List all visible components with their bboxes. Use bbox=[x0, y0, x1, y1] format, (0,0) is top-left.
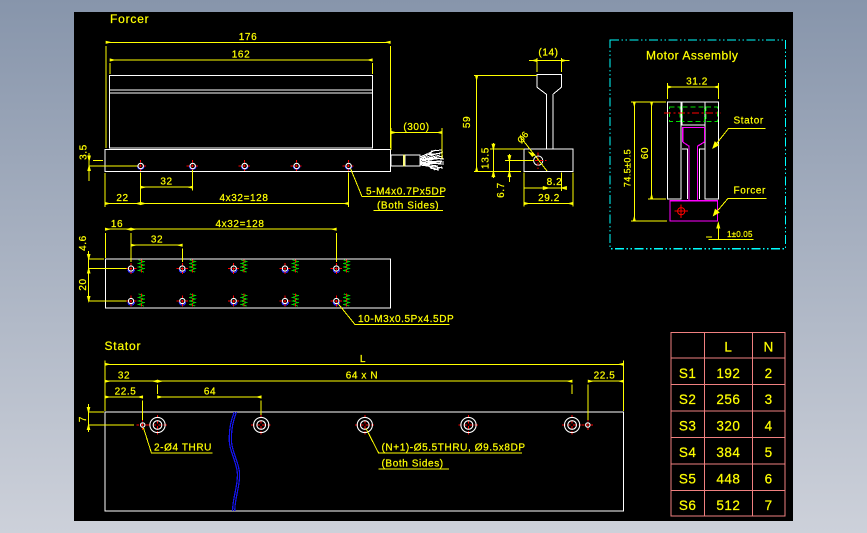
dimension 8.2 bbox=[524, 173, 566, 192]
svg-text:Forcer: Forcer bbox=[110, 12, 149, 26]
label 5-M4x0.7Px5DP leader bbox=[351, 169, 445, 211]
label Forcer leader bbox=[714, 198, 767, 215]
dimension 13.5 bbox=[490, 143, 524, 178]
centerline (red dash-dot) bbox=[664, 112, 721, 114]
stator plate bbox=[105, 412, 624, 511]
forcer T profile (side view) bbox=[524, 74, 573, 171]
svg-text:32: 32 bbox=[118, 371, 130, 382]
dimension 176 bbox=[106, 42, 390, 148]
dimension 22.5 (right) bbox=[588, 381, 623, 420]
svg-text:(Both Sides): (Both Sides) bbox=[382, 458, 444, 469]
dimension 4x32=128 (bottom view) bbox=[131, 229, 336, 262]
svg-text:5: 5 bbox=[765, 445, 773, 460]
dimension 32 (bottom view) bbox=[131, 245, 182, 262]
label Stator leader bbox=[713, 129, 765, 149]
forcer mount holes (front view) bbox=[135, 160, 355, 172]
dimension 29.2 bbox=[524, 173, 573, 207]
svg-text:176: 176 bbox=[239, 32, 258, 43]
svg-text:Stator: Stator bbox=[105, 339, 142, 353]
svg-text:N: N bbox=[763, 340, 773, 355]
svg-text:Forcer: Forcer bbox=[734, 186, 767, 197]
dimension 20 (bottom view) bbox=[88, 273, 127, 301]
dimension 31.2 bbox=[668, 83, 719, 99]
svg-text:162: 162 bbox=[232, 50, 251, 61]
svg-text:S5: S5 bbox=[679, 472, 697, 487]
svg-text:5-M4x0.7Px5DP: 5-M4x0.7Px5DP bbox=[366, 186, 447, 197]
dimension 60 bbox=[648, 102, 666, 199]
svg-text:20: 20 bbox=[78, 278, 89, 290]
side view base block bbox=[524, 149, 573, 171]
dimension 6.7 bbox=[505, 154, 534, 182]
stator inner wall left bbox=[682, 149, 687, 199]
svg-text:7: 7 bbox=[765, 498, 773, 513]
svg-text:29.2: 29.2 bbox=[538, 193, 560, 204]
forcer body (front view) bbox=[110, 76, 373, 149]
svg-text:256: 256 bbox=[716, 392, 740, 407]
svg-text:1±0.05: 1±0.05 bbox=[727, 230, 753, 239]
svg-text:4.6: 4.6 bbox=[78, 235, 89, 251]
svg-text:S4: S4 bbox=[679, 445, 697, 460]
motor assembly dashed border bbox=[610, 40, 786, 249]
svg-text:6: 6 bbox=[765, 472, 773, 487]
svg-text:2-Ø4 THRU: 2-Ø4 THRU bbox=[154, 443, 212, 454]
svg-text:4x32=128: 4x32=128 bbox=[219, 193, 268, 204]
dimension 162 bbox=[110, 60, 372, 74]
dimension 22.5 (left) bbox=[105, 397, 143, 420]
dimension 4.6 (bottom view) bbox=[88, 251, 127, 273]
dimension 59 bbox=[474, 76, 537, 172]
dimension 7 (stator) bbox=[87, 404, 134, 432]
svg-text:31.2: 31.2 bbox=[686, 77, 708, 88]
dimension 64 (stator) bbox=[158, 397, 262, 415]
svg-text:L: L bbox=[724, 340, 732, 355]
svg-text:22.5: 22.5 bbox=[594, 371, 616, 382]
dimension 16 (bottom view) bbox=[105, 229, 131, 262]
svg-text:64: 64 bbox=[204, 387, 216, 398]
stator left leg bbox=[668, 102, 682, 199]
label (N+1)-Ø5.5THRU leader bbox=[366, 429, 522, 469]
svg-text:448: 448 bbox=[716, 472, 740, 487]
svg-text:(Both Sides): (Both Sides) bbox=[377, 200, 439, 211]
svg-text:8.2: 8.2 bbox=[547, 177, 563, 188]
tapped holes row 2 bbox=[125, 294, 349, 309]
forcer base block (magenta) bbox=[670, 201, 718, 221]
cable connector part 2 bbox=[405, 155, 420, 166]
svg-text:13.5: 13.5 bbox=[481, 147, 492, 169]
thread spring symbols row1 (green) bbox=[139, 260, 350, 272]
dimension L bbox=[105, 361, 624, 412]
side view hole crosshair bbox=[530, 152, 547, 169]
svg-text:(300): (300) bbox=[403, 122, 429, 133]
svg-text:512: 512 bbox=[716, 498, 740, 513]
svg-text:192: 192 bbox=[716, 366, 740, 381]
dimension (14) bbox=[529, 58, 570, 72]
svg-text:74.5±0.5: 74.5±0.5 bbox=[623, 149, 633, 187]
dimension 32 (front) bbox=[141, 170, 193, 205]
break line (blue squiggle) bbox=[229, 412, 239, 511]
svg-text:320: 320 bbox=[716, 419, 740, 434]
dimension 64 x N bbox=[158, 381, 573, 394]
svg-text:(14): (14) bbox=[538, 48, 558, 59]
cable connector part 1 bbox=[391, 155, 404, 166]
svg-text:2: 2 bbox=[765, 366, 773, 381]
svg-text:S6: S6 bbox=[679, 498, 697, 513]
svg-text:4: 4 bbox=[765, 419, 773, 434]
svg-text:3: 3 bbox=[765, 392, 773, 407]
svg-text:S1: S1 bbox=[679, 366, 697, 381]
dimension 4x32=128 (front) bbox=[141, 173, 349, 208]
stator right leg bbox=[705, 102, 719, 199]
svg-text:Motor Assembly: Motor Assembly bbox=[646, 49, 738, 63]
dimension 22 (front) bbox=[105, 173, 141, 207]
svg-text:32: 32 bbox=[160, 177, 172, 188]
svg-text:3.5: 3.5 bbox=[79, 144, 90, 160]
side view hole circle bbox=[534, 156, 543, 165]
forcer base plate (front view) bbox=[105, 150, 391, 172]
stator mounting holes (big, counterbored) bbox=[148, 415, 583, 435]
svg-text:60: 60 bbox=[640, 147, 651, 159]
table text bbox=[679, 340, 774, 513]
svg-text:6.7: 6.7 bbox=[496, 182, 507, 198]
thread spring symbols row2 (green) bbox=[139, 294, 350, 306]
stator inner wall right bbox=[700, 149, 706, 199]
dimension 32 (stator) bbox=[105, 381, 158, 394]
svg-text:22: 22 bbox=[116, 193, 128, 204]
stator dowel holes (small) bbox=[137, 419, 594, 431]
svg-text:32: 32 bbox=[151, 235, 163, 246]
svg-text:59: 59 bbox=[462, 116, 473, 128]
svg-text:22.5: 22.5 bbox=[115, 387, 137, 398]
svg-text:64 x N: 64 x N bbox=[346, 371, 379, 382]
svg-text:L: L bbox=[360, 354, 366, 365]
forcer base hole bbox=[675, 205, 688, 218]
forcer body cover line 1 bbox=[110, 89, 373, 91]
svg-text:4x32=128: 4x32=128 bbox=[215, 219, 264, 230]
label 2-Ø4 THRU leader bbox=[144, 428, 213, 453]
leader Ø6 diagonal bbox=[521, 137, 548, 171]
dimension 74.5±0.5 bbox=[631, 102, 667, 221]
svg-text:Stator: Stator bbox=[734, 116, 764, 127]
label 10-M3x0.5Px4.5DP leader bbox=[338, 304, 450, 325]
forcer body cover line 2 bbox=[110, 92, 373, 94]
dimension (300) cable bbox=[391, 128, 442, 167]
table grid bbox=[671, 332, 785, 516]
svg-text:16: 16 bbox=[111, 219, 123, 230]
svg-text:384: 384 bbox=[716, 445, 740, 460]
tapped holes row 1 bbox=[125, 260, 349, 275]
magnet plates (green dashed) bbox=[669, 107, 717, 122]
drawing canvas bbox=[74, 12, 793, 521]
svg-text:7: 7 bbox=[78, 416, 89, 422]
cable wire brush bbox=[420, 150, 444, 170]
svg-text:S3: S3 bbox=[679, 419, 697, 434]
svg-text:(N+1)-Ø5.5THRU, Ø9.5x8DP: (N+1)-Ø5.5THRU, Ø9.5x8DP bbox=[382, 443, 526, 454]
dimension 3.5 bbox=[88, 153, 138, 181]
forcer bottom view outline bbox=[105, 259, 390, 308]
stator center block bbox=[682, 102, 705, 125]
svg-text:S2: S2 bbox=[679, 392, 697, 407]
forcer profile (magenta) bbox=[670, 128, 718, 222]
svg-text:10-M3x0.5Px4.5DP: 10-M3x0.5Px4.5DP bbox=[358, 314, 454, 325]
dimension 1±0.05 bbox=[706, 223, 753, 240]
